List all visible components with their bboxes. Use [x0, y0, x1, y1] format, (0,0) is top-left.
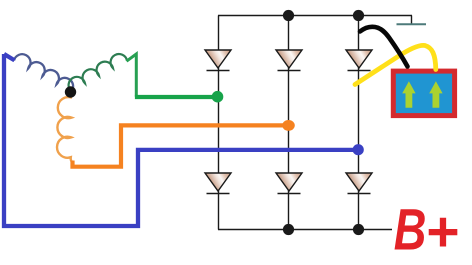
- svg-text:+: +: [425, 200, 458, 264]
- diode D3 top column3: [346, 50, 372, 71]
- stator coil L3 orange: [57, 97, 72, 162]
- diode D2 top column2: [276, 50, 302, 71]
- top rail right step: [411, 16, 413, 25]
- black marker wire: [360, 27, 408, 67]
- junction bottom node 2: [283, 224, 294, 235]
- diode D6 bottom column3: [346, 173, 372, 194]
- junction top node 3: [353, 10, 364, 21]
- bottom rail: [218, 229, 392, 231]
- yellow wire: [355, 45, 436, 84]
- diode D4 bottom column1: [205, 173, 231, 194]
- green phase wire: [127, 54, 137, 97]
- diode D1 top column1: [205, 50, 231, 71]
- green terminal dot: [212, 91, 224, 103]
- wire column 1: [218, 16, 220, 230]
- teal stub: [397, 23, 427, 25]
- wire column 2: [288, 16, 290, 230]
- arrow 1: [402, 81, 415, 107]
- junction bottom node 3: [353, 224, 364, 235]
- stator coil L1 blue: [14, 54, 73, 92]
- junction top node 2: [283, 10, 294, 21]
- orange phase wire: [73, 125, 287, 166]
- wire column 3: [358, 16, 360, 230]
- blue phase wire: [4, 54, 356, 226]
- orange terminal dot: [282, 120, 295, 131]
- label B+: [394, 198, 427, 263]
- battery box: [393, 71, 454, 116]
- stator coil L2 green: [69, 54, 127, 91]
- star point node: [65, 86, 76, 97]
- arrow 2: [429, 81, 442, 107]
- svg-text:B: B: [394, 198, 427, 263]
- blue terminal dot: [353, 144, 364, 155]
- top rail: [218, 15, 412, 17]
- diode D5 bottom column2: [276, 173, 302, 194]
